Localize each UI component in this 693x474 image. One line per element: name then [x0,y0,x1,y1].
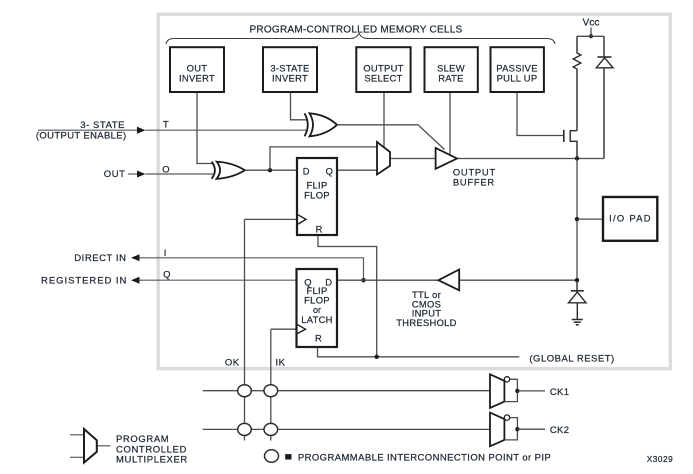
title: PROGRAM-CONTROLLED MEMORY CELLS [250,25,463,36]
wire: OUT INVERT drop to XOR U2 [197,92,214,164]
wire: mux output to buffer [390,158,436,160]
pin label O [162,164,169,175]
svg-text:FLOP: FLOP [304,190,330,201]
label OK [225,358,240,369]
pin label I [164,247,167,258]
svg-text:FLOP: FLOP [304,295,330,306]
resistor R (passive pull-up) [573,36,581,130]
node: output junction [575,156,579,160]
svg-text:SELECT: SELECT [364,73,402,84]
svg-text:R: R [316,224,323,235]
wire: FF2 R to global reset [318,347,520,357]
svg-text:PROGRAM-CONTROLLED MEMORY CELL: PROGRAM-CONTROLLED MEMORY CELLS [250,25,463,36]
memory cell box: 3-STATE INVERT [263,47,317,92]
wire: OUTPUT SELECT drop to mux [383,92,385,147]
legend text: PROGRAM CONTROLLED MULTIPLEXER [116,434,188,466]
label: 3-STATE (OUTPUT ENABLE) [36,120,127,141]
flip-flop FF1 [297,158,337,235]
svg-text:THRESHOLD: THRESHOLD [396,317,457,328]
mux: output select multiplexer [377,142,390,175]
arrow into O [137,171,146,178]
svg-text:LATCH: LATCH [301,314,333,325]
wire: FF2 D from input buffer [337,279,438,281]
svg-text:MULTIPLEXER: MULTIPLEXER [116,455,188,466]
wire: bypass from junction to mux upper input [270,147,377,170]
wire: OK vertical [244,219,246,440]
diode D1 to Vcc [596,36,613,158]
svg-text:OK: OK [225,358,240,369]
node: XOR U2 output junction [268,168,272,172]
svg-text:Q: Q [163,269,170,280]
svg-text:INVERT: INVERT [272,73,308,84]
transistor M1 (pull-up MOSFET) [564,130,577,159]
ground [572,320,583,325]
node: input branch [575,278,579,282]
arrow into T [137,127,146,134]
svg-text:I: I [164,247,167,258]
svg-text:DIRECT IN: DIRECT IN [74,253,126,264]
mux CK1 [490,374,569,408]
svg-text:D: D [303,166,310,177]
mux CK2 [490,413,569,447]
wire: clock row 1 [203,390,490,392]
wire: O input lead [128,173,213,175]
svg-text:(OUTPUT ENABLE): (OUTPUT ENABLE) [36,130,127,141]
pin label T [163,119,169,130]
svg-text:IK: IK [276,358,286,369]
svg-text:R: R [315,333,322,344]
wire: FF1 R to global reset [318,235,377,357]
label: (GLOBAL RESET) [529,354,614,365]
svg-text:PULL UP: PULL UP [497,73,538,84]
svg-text:Q: Q [326,166,333,177]
label: OUT [104,169,126,180]
input buffer (TTL/CMOS threshold) [396,270,459,328]
wire: clock row 2 [203,428,490,430]
wire: SLEW RATE drop to output buffer [449,92,451,155]
wire: PASSIVE PULL UP drop to MOSFET gate [517,92,564,136]
memory cell box: OUTPUT SELECT [356,47,410,92]
legend text: PIP [298,452,551,463]
node: input junction to FF2 D [361,278,365,282]
PIP circle row1-IK [264,385,278,397]
wire: DIRECT IN line [139,258,364,280]
arrow out DIRECT IN [131,254,140,261]
legend: program controlled multiplexer symbol [70,429,111,463]
legend: PIP symbol [265,450,292,463]
wire: REGISTERED IN line from FF2 Q [139,279,297,281]
label IK [276,358,286,369]
wire: pad vertical [576,159,578,281]
wire: buffer output node [457,158,604,160]
svg-text:CK2: CK2 [550,425,569,436]
node Vcc [577,18,604,39]
memory cell box: OUT INVERT [170,47,224,92]
svg-text:(GLOBAL RESET): (GLOBAL RESET) [529,354,614,365]
xor gate U1 (3-state path) [305,113,338,136]
brace under title [166,34,555,45]
label: REGISTERED IN [41,275,127,286]
svg-text:OUT: OUT [104,169,126,180]
frame: memory-cell block boundary [158,14,670,368]
memory cell box: PASSIVE PULL UP [491,47,544,92]
PIP circle row2-OK [238,423,252,435]
arrow out REGISTERED IN [131,277,140,284]
PIP circle row1-OK [238,385,252,397]
pin label Q [163,269,170,280]
wire: XOR U1 output with diagonal to buffer top [337,125,445,150]
diode D2 to ground [569,280,587,319]
memory cell box: SLEW RATE [425,47,478,92]
wire: IK vertical [270,329,272,440]
output buffer triangle [436,148,496,187]
figure number X3029 [647,454,674,464]
I/O PAD box [603,197,657,241]
label: DIRECT IN [74,253,126,264]
flip-flop FF2 (or latch) [297,269,338,347]
wire: T input lead [38,129,308,131]
wire: XOR U2 output to FF1 D [245,169,297,171]
svg-text:INVERT: INVERT [179,73,215,84]
node: I/O pad branch [575,217,603,221]
wire: 3-STATE INVERT drop to XOR U1 [291,92,309,120]
svg-text:O: O [162,164,169,175]
svg-text:X3029: X3029 [647,454,674,464]
svg-text:REGISTERED IN: REGISTERED IN [41,275,127,286]
wire: FF2 clock from IK line [271,328,297,330]
wire: input buffer to pad node [459,279,577,281]
svg-text:RATE: RATE [438,73,464,84]
svg-text:BUFFER: BUFFER [453,176,495,187]
svg-text:Vcc: Vcc [583,18,600,29]
PIP circle row2-IK [264,423,278,435]
svg-text:PROGRAMMABLE INTERCONNECTION P: PROGRAMMABLE INTERCONNECTION POINT or PI… [298,452,551,463]
wire: FF1 clock from OK line [245,218,298,220]
svg-text:T: T [163,119,169,130]
xor gate U2 (out path) [212,162,245,179]
node: global reset junction [375,355,379,359]
wire: FF1 Q to mux lower input [337,169,377,171]
svg-text:CK1: CK1 [550,387,569,398]
svg-text:I/O PAD: I/O PAD [609,213,652,224]
